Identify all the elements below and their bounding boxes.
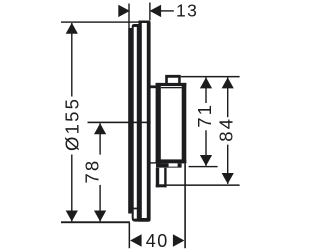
center line through plate [88,122,151,124]
button on handle [165,75,181,83]
plate back escutcheon (side view) [132,24,139,222]
40 right extension line [184,163,186,248]
wall line [128,28,132,214]
handle left edge [156,83,161,163]
dia155 top extension line [61,21,139,22]
13 right extension line [149,3,150,21]
84 dimension line [227,77,228,117]
handle inner top line [161,87,182,88]
71 dimension line [205,77,206,103]
13 lead line [161,10,174,11]
78 dimension line [99,123,100,154]
dia155 bottom extension line [61,221,130,223]
dia155 up arrow [66,23,78,34]
plate front silhouette [139,21,151,222]
lower connector plate-to-handle [150,162,156,163]
svg-text:13: 13 [176,0,198,20]
dia155 down arrow [66,211,78,222]
block below handle [156,168,159,188]
svg-text:Ø155: Ø155 [62,97,83,151]
84 up arrow [222,77,234,88]
handle bottom cap [156,159,187,163]
40 left arrow [130,234,142,246]
handle bottom tab with notch [156,163,182,167]
13 right arrow [150,5,162,17]
svg-text:71: 71 [194,103,215,128]
71 up arrow [200,77,212,88]
svg-text:84: 84 [215,117,236,142]
svg-text:78: 78 [82,159,103,184]
84 down arrow [222,173,234,184]
upper connector plate-to-handle [150,85,157,88]
78 down arrow [94,211,106,222]
13 left arrow [118,5,130,17]
84 bottom extension line [167,184,240,186]
handle top cap [156,83,187,86]
13 left extension line [128,4,129,29]
71 bottom extension line [189,166,218,167]
dia155 dimension line [71,23,72,97]
40 right arrow [173,234,185,246]
handle right edge [182,83,187,163]
78 up arrow [94,123,106,134]
svg-text:40: 40 [146,231,169,250]
71/84 top extension line [181,76,240,78]
71 down arrow [200,155,212,166]
40 left extension line [129,223,131,248]
